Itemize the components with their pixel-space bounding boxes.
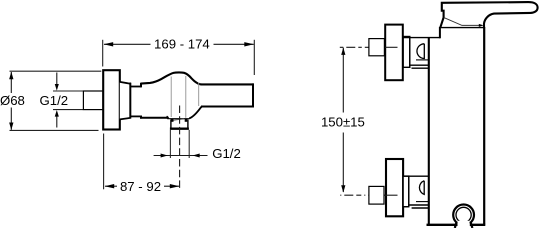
dim 87-92 left arrowhead <box>105 184 115 188</box>
outlet G1/2 right arrowhead <box>193 153 200 157</box>
wall flange <box>103 70 120 129</box>
cone right edge <box>129 83 131 119</box>
top union nut outline <box>403 38 440 69</box>
shower holder inner ring <box>456 207 471 222</box>
outlet G1/2 left arrowhead <box>161 153 168 157</box>
outlet nut corner left <box>171 119 174 122</box>
outlet centerline dashed <box>179 106 181 189</box>
cone section <box>120 82 131 120</box>
top union collar <box>403 37 410 68</box>
spout right end edge <box>252 83 254 107</box>
dim 150 line upper <box>342 48 344 113</box>
svg-text:G1/2: G1/2 <box>40 93 69 108</box>
svg-text:150±15: 150±15 <box>321 115 365 130</box>
body bulge top curve <box>141 72 202 84</box>
top union nipple <box>369 39 385 56</box>
dim 169-174 line right segment <box>214 43 254 45</box>
body bottom edge <box>427 224 486 226</box>
bottom union nut outline <box>403 176 428 208</box>
shower holder left leg <box>455 222 457 228</box>
body bottom line <box>140 117 169 119</box>
dim 169-174 extension line right <box>253 40 255 75</box>
dim 87-92 right arrowhead <box>170 184 180 188</box>
G1/2 upper arrow <box>56 73 58 86</box>
bulge left step bottom <box>140 116 142 119</box>
dim 87-92 extension line left <box>103 134 105 190</box>
cap bottom line <box>440 27 484 29</box>
spout bottom line <box>201 106 254 108</box>
svg-text:Ø68: Ø68 <box>0 93 25 108</box>
body bottom right curve to spout <box>189 107 202 119</box>
collar ellipse diagonal <box>171 119 185 121</box>
internal edge cartridge left <box>170 77 172 118</box>
spout top line <box>201 83 254 85</box>
outlet collar top line <box>167 118 189 120</box>
top union centerline inside disc <box>385 46 398 48</box>
body top-left step vertical <box>439 27 441 38</box>
lever seam triangle <box>479 24 484 27</box>
top union step line below arc <box>416 59 428 61</box>
outlet G1/2 dim line <box>154 155 208 157</box>
dim 169-174 extension line left <box>102 40 104 67</box>
Ø68 bottom extension line <box>10 129 99 131</box>
shower holder outer ring <box>453 205 474 226</box>
outlet nut body <box>171 120 188 129</box>
bottom union centerline inside disc <box>385 194 398 196</box>
outlet nut bottom thick edge <box>170 127 189 129</box>
dim 150 bottom arrowhead <box>341 185 345 192</box>
top union flange disc <box>385 25 403 81</box>
shower holder gap <box>458 221 470 229</box>
svg-text:169 - 174: 169 - 174 <box>154 37 210 52</box>
svg-text:87 - 92: 87 - 92 <box>120 179 161 194</box>
inlet nipple <box>83 91 103 110</box>
dim 87-92 line right segment <box>164 185 179 187</box>
lever seam line <box>444 18 482 26</box>
outlet collar lip tick <box>166 116 168 119</box>
Ø68 upper arrowhead <box>9 72 13 80</box>
lever and cap white fill <box>440 2 537 28</box>
G1/2 lower arrow <box>56 116 58 128</box>
dim 169-174 right arrowhead <box>244 42 254 46</box>
internal edge cartridge right <box>185 76 187 118</box>
Ø68 dimension line lower <box>10 108 12 130</box>
Ø68 lower arrowhead <box>9 123 13 131</box>
bottom union flange disc <box>386 159 403 216</box>
outlet nut corner right <box>185 119 188 122</box>
dim 150 top arrowhead <box>341 48 345 55</box>
Ø68 dimension line upper <box>10 72 12 93</box>
top union D-arc <box>417 44 424 59</box>
dim 150 top centerline dashed <box>340 46 398 48</box>
dim 169-174 left arrowhead <box>104 42 114 46</box>
dim 169-174 line left segment <box>104 43 151 45</box>
bottom union collar <box>403 176 409 207</box>
bottom union step line below arc <box>416 201 428 203</box>
outlet pipe left edge <box>169 130 171 158</box>
lever outline stroke <box>440 2 537 28</box>
internal edge spout junction <box>198 83 200 107</box>
dim 87-92 line left segment <box>105 185 117 187</box>
body left edge <box>428 38 430 225</box>
bottom union nipple <box>369 186 384 204</box>
svg-text:G1/2: G1/2 <box>212 146 241 161</box>
outlet pipe right edge <box>188 130 190 158</box>
waist section top <box>130 86 141 88</box>
Ø68 top extension line <box>10 70 102 72</box>
shower holder right leg <box>470 222 472 228</box>
bulge left step top <box>140 83 142 88</box>
body right edge <box>483 27 485 225</box>
bottom union D-arc <box>419 181 424 195</box>
dim 150 bottom centerline dashed <box>340 194 397 196</box>
G1/2 inlet bottom extension line <box>53 109 83 111</box>
dim 150 line lower <box>342 133 344 193</box>
waist section bottom <box>130 115 141 117</box>
G1/2 inlet top extension line <box>53 90 83 92</box>
